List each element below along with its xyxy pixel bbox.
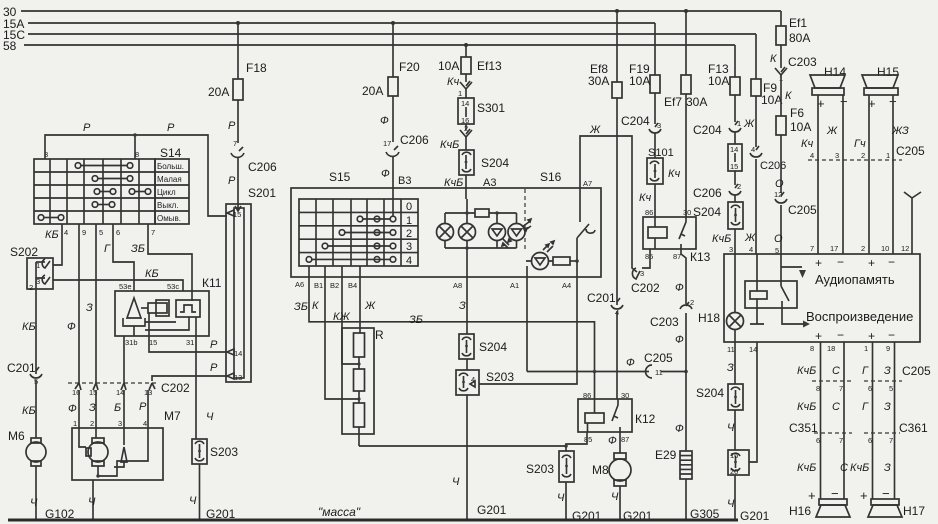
wire E29 to G305 bbox=[685, 479, 687, 520]
svg-text:S301: S301 bbox=[477, 101, 505, 115]
svg-text:Н15: Н15 bbox=[877, 65, 899, 79]
svg-text:20: 20 bbox=[730, 467, 738, 476]
svg-text:86: 86 bbox=[645, 208, 653, 217]
svg-text:З: З bbox=[727, 362, 734, 374]
lamp H18 bbox=[698, 254, 744, 342]
svg-text:КБ: КБ bbox=[22, 321, 36, 333]
svg-text:31b: 31b bbox=[125, 338, 138, 347]
svg-text:C201: C201 bbox=[587, 291, 616, 305]
svg-text:53е: 53е bbox=[119, 282, 132, 291]
svg-text:З: З bbox=[884, 365, 891, 377]
svg-text:7: 7 bbox=[839, 384, 843, 393]
wire connector to G201 right bbox=[734, 475, 736, 520]
svg-text:S204: S204 bbox=[479, 340, 507, 354]
connector box lower right bbox=[728, 450, 749, 476]
svg-text:C205: C205 bbox=[902, 364, 931, 378]
svg-text:C206: C206 bbox=[760, 160, 786, 172]
svg-text:Ч: Ч bbox=[727, 498, 735, 510]
svg-text:G201: G201 bbox=[477, 503, 507, 517]
svg-text:S203: S203 bbox=[210, 445, 238, 459]
wire bus15A to F20 bbox=[392, 23, 394, 77]
fuse F13 bbox=[708, 62, 740, 95]
svg-text:C202: C202 bbox=[631, 281, 660, 295]
svg-text:А7: А7 bbox=[583, 179, 592, 188]
svg-text:Ч: Ч bbox=[30, 497, 38, 509]
svg-text:КчБ: КчБ bbox=[440, 139, 459, 151]
wire C206.4 to radio pin4 bbox=[755, 159, 757, 254]
wire Ef8 long drop to C201 pin4 bbox=[616, 98, 618, 305]
svg-text:F18: F18 bbox=[246, 61, 267, 75]
wire F19 to C204 pin3 bbox=[654, 93, 656, 124]
S14 top bracket P wire to S201 bbox=[44, 122, 227, 216]
connector S204 middle top bbox=[459, 150, 509, 175]
svg-text:4: 4 bbox=[64, 228, 68, 237]
svg-text:Ef13: Ef13 bbox=[477, 59, 502, 73]
wire R bottom to S203 node bbox=[359, 445, 566, 447]
wire C205.11 horizontal bbox=[527, 370, 688, 374]
relay K12 bbox=[578, 391, 656, 444]
svg-text:Ef7: Ef7 bbox=[664, 95, 682, 109]
wire F13 to C204 pin1 bbox=[734, 95, 736, 122]
svg-text:C361: C361 bbox=[899, 421, 928, 435]
svg-text:А4: А4 bbox=[562, 281, 571, 290]
wire F9 to C206 pin4 bbox=[755, 96, 757, 147]
svg-text:30А: 30А bbox=[686, 95, 707, 109]
svg-text:КБ: КБ bbox=[22, 405, 36, 417]
svg-text:А1: А1 bbox=[510, 281, 519, 290]
svg-text:Ч: Ч bbox=[727, 422, 735, 434]
svg-text:C206: C206 bbox=[248, 160, 277, 174]
wire C206.7 to S201 pin15 bbox=[237, 157, 239, 204]
svg-text:4: 4 bbox=[810, 151, 814, 160]
svg-text:S204: S204 bbox=[693, 205, 721, 219]
speaker H16 bbox=[789, 486, 850, 518]
wire H15- ЖЗ bbox=[892, 95, 894, 160]
svg-text:Ф: Ф bbox=[626, 357, 635, 369]
svg-text:Омыв.: Омыв. bbox=[157, 214, 181, 223]
svg-text:+: + bbox=[860, 488, 868, 503]
fuse Ef8 bbox=[588, 62, 622, 98]
svg-text:2: 2 bbox=[29, 283, 33, 292]
connector C205 bottom dashed bbox=[812, 381, 902, 393]
connector S203 left bbox=[192, 439, 238, 464]
svg-text:G201: G201 bbox=[740, 509, 770, 523]
svg-text:3: 3 bbox=[657, 121, 661, 130]
svg-text:15: 15 bbox=[233, 210, 241, 219]
wire K11.31 Ч to S203 bbox=[195, 336, 197, 439]
svg-text:Р: Р bbox=[167, 122, 175, 134]
LED 2 bbox=[508, 219, 531, 241]
svg-text:Р: Р bbox=[228, 120, 236, 132]
svg-text:2: 2 bbox=[464, 124, 468, 133]
lamp group wiring bbox=[445, 199, 517, 277]
svg-text:Р: Р bbox=[228, 175, 236, 187]
wire B4 Ж to resistor R bbox=[360, 266, 376, 333]
svg-text:10А: 10А bbox=[761, 93, 782, 107]
svg-text:Больш.: Больш. bbox=[157, 162, 184, 171]
wire S203 middle to G201 bbox=[466, 395, 468, 520]
svg-text:З: З bbox=[884, 462, 891, 474]
svg-text:7: 7 bbox=[889, 436, 893, 445]
svg-text:10: 10 bbox=[881, 244, 889, 253]
connector S202 bbox=[10, 245, 53, 292]
motor M7 assembly bbox=[72, 428, 163, 480]
speaker H15 bbox=[862, 65, 899, 111]
radio bottom pin labels bbox=[727, 344, 890, 354]
wire S101 to K13.86 bbox=[654, 184, 656, 217]
svg-text:C201: C201 bbox=[7, 361, 36, 375]
wire B1 К to resistor R bbox=[312, 266, 359, 399]
svg-text:Н17: Н17 bbox=[903, 504, 925, 518]
svg-text:1: 1 bbox=[737, 119, 741, 128]
connector S201 bbox=[226, 186, 276, 382]
wire K13.85 to C202.3 bbox=[642, 249, 650, 268]
svg-text:З: З bbox=[884, 401, 891, 413]
svg-text:Ф: Ф bbox=[67, 321, 76, 333]
svg-text:11: 11 bbox=[727, 345, 735, 354]
svg-text:Ч: Ч bbox=[88, 496, 96, 508]
wire S14.9 Ф to C202.16 bbox=[67, 224, 86, 383]
svg-text:F6: F6 bbox=[790, 106, 804, 120]
wire C203.1 to F6 bbox=[780, 75, 782, 116]
svg-text:Выкл.: Выкл. bbox=[157, 201, 179, 210]
svg-text:М7: М7 bbox=[164, 409, 181, 423]
svg-text:Ж: Ж bbox=[364, 300, 376, 312]
svg-text:3: 3 bbox=[640, 269, 644, 278]
svg-text:Ч: Ч bbox=[611, 491, 619, 503]
svg-text:В1: В1 bbox=[314, 281, 323, 290]
wire K13.87 Ф down bbox=[681, 249, 686, 304]
wire bus58 corner to F13 bbox=[734, 45, 736, 77]
svg-text:Кч: Кч bbox=[801, 138, 813, 150]
svg-text:Ч: Ч bbox=[557, 492, 565, 504]
S15 contacts row1 bbox=[357, 216, 396, 222]
svg-text:C204: C204 bbox=[693, 123, 722, 137]
wire A4 to S203.4 bbox=[479, 261, 577, 384]
svg-text:F20: F20 bbox=[399, 60, 420, 74]
svg-text:КчБ: КчБ bbox=[797, 365, 816, 377]
connector C204 pin 3 bbox=[621, 114, 661, 133]
wire bus30 to Ef8 bbox=[616, 11, 618, 82]
svg-text:3: 3 bbox=[729, 245, 733, 254]
svg-text:9: 9 bbox=[82, 228, 86, 237]
svg-text:18: 18 bbox=[827, 344, 835, 353]
connector C204 pin 1 bbox=[693, 118, 755, 137]
fuse F6 bbox=[776, 106, 811, 135]
svg-text:S204: S204 bbox=[481, 156, 509, 170]
svg-text:КБ: КБ bbox=[145, 268, 159, 280]
svg-text:6: 6 bbox=[868, 436, 872, 445]
wire S14.7 ЗБ to K11 bbox=[131, 224, 192, 301]
connector C205 pin 11 bbox=[626, 351, 673, 378]
switch S15 table bbox=[299, 199, 418, 267]
connector S204 right column bbox=[693, 202, 743, 229]
svg-text:Гч: Гч bbox=[854, 138, 866, 150]
wire S204 to box pin A3 bbox=[465, 175, 467, 199]
svg-text:Ф: Ф bbox=[675, 334, 684, 346]
svg-text:4: 4 bbox=[143, 419, 147, 428]
wire C204.3 to S101 bbox=[654, 133, 656, 158]
wire Ef13 to connector 1 bbox=[465, 74, 467, 82]
connector box 14/15 bbox=[728, 144, 742, 171]
svg-text:87: 87 bbox=[673, 252, 681, 261]
connector S204 bottom right bbox=[696, 384, 743, 410]
lamp 2 bbox=[459, 224, 476, 241]
wire S301 to connector 2 bbox=[465, 124, 467, 130]
S14 contacts row4 bbox=[92, 202, 115, 208]
svg-text:+: + bbox=[868, 329, 875, 343]
svg-text:Б: Б bbox=[114, 402, 121, 414]
fuse F18 bbox=[208, 61, 267, 100]
speaker H17 bbox=[860, 486, 925, 518]
svg-text:16: 16 bbox=[730, 451, 738, 460]
wire labels row C205 bottom bbox=[797, 364, 931, 378]
svg-text:К12: К12 bbox=[635, 412, 656, 426]
svg-text:С: С bbox=[832, 401, 840, 413]
svg-text:1: 1 bbox=[73, 419, 77, 428]
connector C206 pin 4 bbox=[750, 145, 786, 172]
wire radio.14 to connector side bbox=[749, 342, 757, 462]
svg-text:7: 7 bbox=[233, 139, 237, 148]
connector S203 middle bbox=[456, 370, 514, 395]
svg-text:КЖ: КЖ bbox=[333, 311, 350, 323]
S16 LED lamp bbox=[526, 241, 554, 270]
connector C351 dashed bbox=[789, 421, 852, 445]
svg-text:5: 5 bbox=[99, 228, 103, 237]
svg-text:КчБ: КчБ bbox=[797, 401, 816, 413]
svg-text:6: 6 bbox=[868, 384, 872, 393]
S16 switch contact bbox=[577, 188, 595, 261]
wire labels row 3 bbox=[797, 462, 891, 474]
svg-text:9: 9 bbox=[886, 344, 890, 353]
svg-text:К: К bbox=[312, 300, 319, 312]
wire bus30 to Ef7 bbox=[685, 11, 687, 75]
svg-text:Ч: Ч bbox=[206, 411, 214, 423]
svg-text:Цикл: Цикл bbox=[157, 188, 176, 197]
svg-text:4: 4 bbox=[471, 375, 475, 384]
svg-text:К11: К11 bbox=[202, 276, 222, 290]
svg-text:Ф: Ф bbox=[675, 282, 684, 294]
speaker H14 bbox=[810, 65, 848, 111]
C202 pin 14 bbox=[116, 383, 126, 397]
svg-text:R: R bbox=[375, 328, 384, 342]
wire S14.4 КБ to S202.1 bbox=[45, 224, 68, 265]
svg-text:85: 85 bbox=[645, 252, 653, 261]
antenna bbox=[904, 192, 921, 254]
svg-text:14: 14 bbox=[116, 388, 124, 397]
lamp 1 bbox=[437, 224, 454, 241]
connector C201 pin 5 bbox=[7, 361, 42, 386]
dashed divider S15/S16 bbox=[524, 189, 526, 250]
connector S101 bbox=[647, 147, 680, 184]
connector C201 pin 4 bbox=[587, 291, 623, 317]
wire A7 Ж to C202.3 bbox=[580, 124, 637, 272]
resistor in lamp row bbox=[475, 209, 489, 217]
svg-text:C205: C205 bbox=[644, 351, 673, 365]
K11 internal resistor bbox=[141, 300, 169, 316]
wire A8 З down bbox=[459, 277, 467, 334]
svg-text:3: 3 bbox=[835, 151, 839, 160]
svg-text:C202: C202 bbox=[161, 381, 190, 395]
svg-text:Р: Р bbox=[210, 339, 218, 351]
connector pin 1 on Ef13 line bbox=[458, 81, 472, 98]
svg-text:S203: S203 bbox=[526, 462, 554, 476]
svg-text:C206: C206 bbox=[693, 186, 722, 200]
wire K11.15 P to S201.14 bbox=[149, 336, 227, 352]
svg-text:10А: 10А bbox=[708, 74, 729, 88]
wire radio.1 Г to H17+ bbox=[872, 342, 874, 499]
radio internal relay bbox=[745, 254, 810, 328]
svg-text:14: 14 bbox=[461, 99, 469, 108]
svg-text:20A: 20A bbox=[362, 84, 383, 98]
K11 internal pulse unit bbox=[176, 300, 200, 317]
svg-text:2: 2 bbox=[861, 151, 865, 160]
svg-text:Ф: Ф bbox=[380, 115, 389, 127]
junction bus15A/F20 bbox=[391, 21, 395, 25]
svg-text:12: 12 bbox=[774, 190, 782, 199]
fuse F20 bbox=[362, 60, 420, 98]
junction bus58/Ef13 bbox=[464, 43, 468, 47]
S14 contacts row5 bbox=[38, 215, 64, 221]
svg-text:М6: М6 bbox=[8, 429, 25, 443]
wire radio.18 С to H16- bbox=[843, 342, 845, 499]
svg-text:Р: Р bbox=[210, 362, 218, 374]
wire S202.3 КБ to K11.53c bbox=[53, 268, 183, 291]
connector pin 2 on line bbox=[460, 124, 472, 137]
svg-text:87: 87 bbox=[621, 435, 629, 444]
wire radio.11 З to S204 bbox=[734, 342, 736, 384]
svg-text:15: 15 bbox=[149, 338, 157, 347]
svg-text:C351: C351 bbox=[789, 421, 818, 435]
connector S203 bottom middle bbox=[526, 451, 574, 482]
svg-text:Е29: Е29 bbox=[655, 448, 677, 462]
svg-text:З: З bbox=[459, 300, 466, 312]
svg-text:Ф: Ф bbox=[608, 435, 617, 447]
wire C206.2 to S204 bbox=[734, 195, 736, 202]
svg-text:КчБ: КчБ bbox=[712, 233, 731, 245]
fuse F9 bbox=[751, 79, 782, 107]
svg-text:−: − bbox=[837, 328, 844, 342]
svg-text:S14: S14 bbox=[160, 146, 182, 160]
svg-text:ЖЗ: ЖЗ bbox=[891, 125, 909, 137]
S14 contacts row1 bbox=[75, 163, 133, 169]
wire to S301 bbox=[465, 89, 467, 98]
junction bus30/Ef7 bbox=[684, 9, 688, 13]
svg-text:10А: 10А bbox=[790, 120, 811, 134]
svg-text:В3: В3 bbox=[398, 175, 411, 187]
svg-text:+: + bbox=[868, 256, 875, 270]
svg-text:Ф: Ф bbox=[381, 168, 390, 180]
C202 pin 15 bbox=[89, 383, 98, 397]
svg-text:S15: S15 bbox=[329, 170, 351, 184]
svg-text:+: + bbox=[808, 488, 816, 503]
svg-text:+: + bbox=[815, 329, 822, 343]
wire bus30 corner to Ef1 bbox=[780, 11, 782, 26]
svg-text:5: 5 bbox=[889, 384, 893, 393]
wire C201.5 to M6 bbox=[35, 380, 37, 438]
relay K13 bbox=[643, 208, 711, 264]
svg-text:2: 2 bbox=[861, 244, 865, 253]
connector C206 pin 7 bbox=[231, 139, 277, 174]
svg-text:Ж: Ж bbox=[743, 118, 755, 130]
svg-text:ЗБ: ЗБ bbox=[294, 301, 308, 313]
svg-text:−: − bbox=[888, 328, 895, 342]
wire F18 to C206 pin7 bbox=[237, 100, 239, 143]
ground bus масса bbox=[8, 505, 738, 520]
motor M8 bbox=[592, 453, 631, 486]
svg-text:ЗБ: ЗБ bbox=[409, 314, 423, 326]
connector C205 pin 12 bbox=[774, 190, 817, 217]
wire H15+ Гч bbox=[868, 95, 870, 160]
relay K11 bbox=[115, 276, 222, 347]
wire to S204 bbox=[465, 137, 467, 150]
wire A6 ЗБ long run to K12.86 bbox=[294, 266, 595, 399]
svg-text:17: 17 bbox=[830, 244, 838, 253]
svg-text:К: К bbox=[770, 53, 777, 65]
svg-text:Кч: Кч bbox=[639, 192, 651, 204]
svg-text:7: 7 bbox=[810, 244, 814, 253]
svg-text:А8: А8 bbox=[453, 281, 462, 290]
wire M6 to G102 bbox=[35, 466, 37, 520]
svg-text:1: 1 bbox=[458, 89, 462, 98]
K11 internal cam triangle bbox=[123, 298, 145, 326]
radio unit box bbox=[724, 254, 920, 343]
junction bus15A/F18 bbox=[236, 21, 240, 25]
connector C361 dashed bbox=[864, 421, 928, 445]
wire C204.1 to 14/15 box bbox=[734, 132, 736, 144]
svg-text:2: 2 bbox=[90, 419, 94, 428]
fuse F19 bbox=[629, 62, 660, 93]
connector C206 pin 17 bbox=[383, 133, 429, 156]
svg-text:8: 8 bbox=[810, 344, 814, 353]
pin labels radio top bbox=[810, 244, 909, 253]
svg-text:Ф: Ф bbox=[68, 403, 77, 415]
svg-text:S204: S204 bbox=[696, 386, 724, 400]
svg-text:S203: S203 bbox=[486, 370, 514, 384]
svg-text:+: + bbox=[815, 256, 822, 270]
switch S14 body bbox=[34, 146, 189, 224]
bus 15A bbox=[3, 17, 655, 31]
wire M8 to G201 bbox=[619, 486, 621, 520]
svg-text:ЗБ: ЗБ bbox=[131, 243, 145, 255]
svg-text:С: С bbox=[840, 462, 848, 474]
S15 contacts row2 bbox=[339, 230, 396, 236]
svg-text:30: 30 bbox=[621, 391, 629, 400]
svg-text:10А: 10А bbox=[438, 59, 459, 73]
wire F6 to C205 pin12 bbox=[780, 135, 782, 193]
svg-text:А6: А6 bbox=[295, 280, 304, 289]
wire S204 to lower connector bbox=[734, 410, 736, 450]
svg-text:S16: S16 bbox=[540, 170, 562, 184]
svg-text:12: 12 bbox=[901, 244, 909, 253]
svg-text:2: 2 bbox=[406, 228, 412, 240]
svg-text:Малая: Малая bbox=[157, 175, 182, 184]
svg-text:1: 1 bbox=[864, 344, 868, 353]
svg-text:М8: М8 bbox=[592, 463, 609, 477]
svg-text:Г: Г bbox=[862, 365, 869, 377]
heater element E29 bbox=[655, 448, 692, 479]
svg-text:80А: 80А bbox=[789, 31, 810, 45]
connector C206 pin 2 bbox=[693, 182, 741, 200]
wire labels row 2 bbox=[797, 401, 891, 413]
wire F20 to C206 pin17 bbox=[392, 96, 394, 142]
wire K11.31b Б to C202.14 bbox=[123, 336, 125, 383]
wire bus15C corner to F9 bbox=[755, 34, 757, 79]
connector S301 bbox=[458, 98, 505, 125]
svg-text:Г: Г bbox=[104, 243, 111, 255]
svg-text:2: 2 bbox=[737, 182, 741, 191]
svg-text:Ч: Ч bbox=[452, 476, 460, 488]
